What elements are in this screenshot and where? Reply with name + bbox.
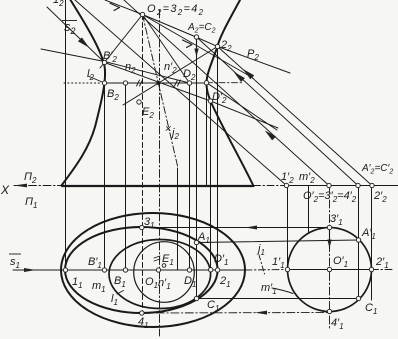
arrow on ray A [235, 73, 245, 82]
projection vertical D' [210, 101, 212, 270]
leader of l1 [117, 291, 124, 295]
waist line dotted left part [64, 82, 100, 84]
point O1 [156, 268, 160, 272]
main vertical axis dash-dot [159, 10, 161, 336]
junction point [157, 81, 160, 84]
point A1 [194, 240, 198, 244]
point 2'1 [369, 267, 373, 271]
circle n'1 [134, 242, 195, 303]
point on waist left [123, 81, 127, 85]
ray 22 to 2'2 [218, 47, 373, 186]
axis j2 dash-dot [143, 15, 179, 169]
point O'2 [327, 183, 331, 187]
point A'1 [356, 238, 360, 242]
segment waist point to ray O [207, 83, 278, 130]
point 3'1 [327, 225, 331, 229]
centre dashdot gap [245, 269, 288, 272]
X axis arrow [14, 184, 27, 188]
point waist right [204, 81, 208, 85]
ellipse l1 [109, 240, 211, 309]
section ellipse m1 [65, 227, 218, 313]
point 1'2 [284, 183, 288, 187]
chord B'2-D'2 [105, 63, 211, 102]
waist line right dashdot [207, 82, 244, 84]
tick marks near junction [137, 80, 181, 86]
point 2'2 [370, 183, 374, 187]
point 21 [215, 268, 219, 272]
ray s2 [47, 7, 105, 63]
line P2 through 1-O-A-2 [105, 0, 290, 73]
line n through B'2 [41, 49, 105, 62]
point O'1 [327, 267, 331, 271]
waist line [105, 82, 207, 84]
right outline curve [206, 0, 253, 186]
ray A2 to A'2 [197, 37, 359, 186]
point D'2 [208, 99, 212, 103]
projection vertical waist right [206, 83, 208, 186]
svg-text:O2=32=42: O2=32=42 [147, 3, 204, 17]
j1 segment [259, 255, 265, 274]
svg-text:A2=C2: A2=C2 [187, 22, 216, 35]
point 11 [63, 268, 67, 272]
transfer line 3 [142, 227, 330, 229]
vertical m' [308, 186, 310, 234]
left outline curve [62, 0, 106, 186]
point B'2 [102, 60, 106, 64]
point 1'1 [285, 267, 289, 271]
circle m'1 [288, 228, 372, 312]
transfer line A [197, 240, 359, 243]
projection vertical A C [196, 37, 198, 299]
transfer line 4 dashdot [142, 312, 330, 315]
approx mark at E1 [154, 256, 160, 261]
projection vertical D [189, 83, 191, 270]
point B1 [123, 268, 127, 272]
down arrow in circle [329, 230, 331, 248]
ray L2 from O2 with V arrow [143, 15, 254, 79]
point C1 ellipse [194, 296, 198, 300]
point A2C2 [194, 35, 198, 39]
outer ellipse [61, 213, 245, 327]
tick at j2 label [166, 127, 171, 131]
point E1 [162, 264, 166, 268]
arrowhead on P2 [110, 3, 120, 10]
point circles [63, 12, 374, 315]
vertical 2' [371, 186, 373, 301]
ray O2 to O'2 [124, 0, 329, 186]
arrow on s2 [78, 38, 88, 47]
vertical centre of circle dashdot [329, 186, 331, 331]
point 31 [140, 225, 144, 229]
transfer line C [197, 298, 359, 300]
line O2 to D2 [143, 15, 190, 84]
point 22 [215, 44, 219, 48]
svg-text:X: X [0, 183, 10, 197]
vertical 1' [287, 186, 289, 270]
svg-text:A′2=C′2: A′2=C′2 [361, 163, 393, 176]
segment D'2 to ray O [211, 101, 279, 128]
X axis line [14, 185, 63, 187]
point B'1 [102, 268, 106, 272]
centre line through ellipses [63, 269, 245, 271]
arrow on ray 2 [244, 70, 254, 79]
line O2-B'2 [100, 15, 143, 69]
projection vertical 1 [65, 0, 67, 270]
point 4'1 [327, 309, 331, 313]
point D2 [187, 81, 191, 85]
projection vertical B1 [125, 83, 127, 270]
centre dashdot right [372, 269, 394, 271]
point B2 [102, 81, 106, 85]
point C1 circle [356, 296, 360, 300]
chord B'2 to D2 [105, 62, 190, 84]
point 41 [140, 311, 144, 315]
vertical through O2 dashed [142, 15, 144, 314]
ray 1 to 1'2 [75, 0, 287, 186]
s1 ray and centre line [13, 269, 63, 271]
line l2 [88, 76, 105, 83]
vertical A' C [358, 186, 360, 299]
projection vertical 2 [217, 47, 219, 271]
projection vertical n' [177, 168, 179, 270]
m'1 leader [272, 288, 293, 294]
point D1 [187, 268, 191, 272]
point A'2 [356, 183, 360, 187]
down arrow at A2 [196, 39, 198, 57]
point O2 [140, 12, 144, 16]
projection vertical B [104, 63, 106, 271]
svg-text:O′2=3′2=4′2: O′2=3′2=4′2 [303, 190, 357, 204]
arrow on ray O [266, 131, 276, 140]
centre line circle view [288, 269, 372, 271]
base of solid (thick) [62, 185, 254, 187]
point E2 [137, 100, 141, 104]
line 22 junction extended [123, 47, 218, 106]
point D'1 [209, 268, 213, 272]
